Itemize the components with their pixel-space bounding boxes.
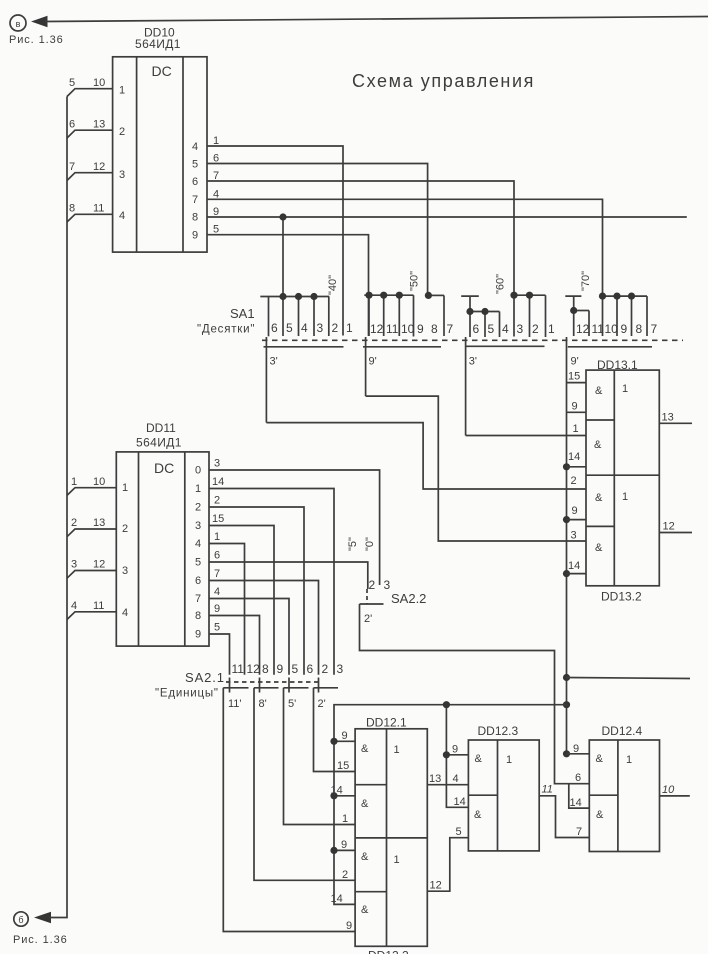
svg-text:3: 3 [214, 458, 220, 470]
DD13.1 pin 14 [567, 451, 587, 467]
svg-text:3: 3 [71, 559, 77, 571]
SA1 section 1 wiper 3' [264, 337, 344, 423]
svg-text:14: 14 [212, 476, 224, 488]
node В (off-page connector top-left) [10, 15, 26, 31]
svg-text:DD13.2: DD13.2 [601, 590, 642, 604]
svg-text:1: 1 [626, 754, 632, 766]
svg-text:5: 5 [488, 322, 495, 336]
DD12.3 output 11 to DD12.4 pin 7 [539, 784, 589, 838]
svg-text:7: 7 [214, 568, 220, 580]
DD11 input 3 (pins 3/12) [67, 559, 116, 579]
svg-text:4: 4 [71, 600, 77, 612]
svg-text:4: 4 [195, 538, 201, 550]
DD13.1 pin 9 [567, 401, 587, 413]
svg-text:&: & [595, 385, 603, 397]
DD12.3 pin labels [452, 743, 466, 808]
svg-text:10: 10 [401, 322, 415, 336]
svg-text:&: & [595, 542, 603, 554]
SA2.1 mechanical link (dashed) [226, 681, 320, 683]
svg-text:3: 3 [119, 169, 125, 181]
svg-text:11: 11 [592, 322, 605, 336]
svg-text:1: 1 [573, 423, 579, 435]
svg-text:3: 3 [384, 578, 391, 592]
svg-text:5: 5 [292, 662, 299, 676]
svg-text:9: 9 [572, 401, 578, 413]
svg-text:&: & [475, 753, 483, 765]
DD11 output 4 wire to SA2.1 contact 5 [209, 586, 289, 675]
svg-text:13: 13 [93, 517, 105, 529]
svg-text:7: 7 [447, 322, 454, 336]
svg-text:7: 7 [576, 826, 582, 838]
svg-text:12: 12 [93, 161, 105, 173]
svg-text:"50": "50" [409, 271, 421, 291]
svg-text:9: 9 [214, 603, 220, 615]
svg-text:&: & [596, 809, 604, 821]
svg-text:10: 10 [93, 77, 105, 89]
gate DD12.4 [589, 724, 659, 852]
svg-text:SA2.1: SA2.1 [185, 670, 225, 685]
DD11 input 4 (pins 4/11) [67, 600, 116, 620]
svg-text:11: 11 [93, 600, 104, 612]
svg-text:2: 2 [369, 578, 376, 592]
svg-text:"Десятки": "Десятки" [197, 324, 255, 336]
svg-text:8: 8 [636, 322, 643, 336]
wire: SA1.1 wiper to DD13.2 pin 2 [266, 423, 586, 489]
SA1 section 3 contacts (6..1) [461, 292, 555, 337]
svg-text:4: 4 [453, 773, 459, 785]
wire: node bus from SA1.4 wiper to DD12.1 left pins [330, 705, 566, 905]
wire: SA1.4 wiper branch to right edge [567, 678, 691, 679]
svg-text:9': 9' [369, 356, 377, 368]
DD11 output 15 wire to SA2.1 contact 9 [209, 513, 274, 675]
svg-text:DC: DC [154, 460, 174, 476]
svg-text:5': 5' [288, 698, 296, 710]
DD11 output 7 wire to SA2.1 contact 2 [209, 568, 319, 675]
svg-text:DD12.3: DD12.3 [478, 724, 519, 738]
svg-text:5: 5 [214, 622, 220, 634]
svg-text:564ИД1: 564ИД1 [135, 37, 181, 51]
svg-text:"0": "0" [364, 537, 376, 551]
svg-text:8: 8 [195, 610, 201, 622]
svg-text:2: 2 [119, 126, 125, 138]
svg-text:9: 9 [342, 730, 348, 742]
svg-text:564ИД1: 564ИД1 [136, 436, 182, 450]
svg-text:&: & [595, 492, 603, 504]
svg-text:1: 1 [506, 754, 512, 766]
switch SA2.1 "Единицы" labels [155, 670, 225, 700]
svg-text:7: 7 [195, 593, 201, 605]
svg-text:9: 9 [572, 505, 578, 517]
svg-text:&: & [361, 798, 369, 810]
svg-text:3: 3 [122, 565, 128, 577]
svg-text:13: 13 [662, 412, 674, 424]
SA1 mechanical link (dashed) [262, 339, 683, 341]
svg-text:1: 1 [119, 85, 125, 97]
svg-text:13: 13 [93, 119, 105, 131]
svg-text:DD11: DD11 [146, 421, 176, 435]
svg-text:6: 6 [271, 321, 278, 335]
svg-text:9: 9 [277, 662, 284, 676]
DD10 output 5 wire to SA1.2 contact 12 [207, 224, 369, 337]
switch SA2.2 [347, 537, 426, 625]
SA2.1 wiper 2' to DD12.1 pin 15 [314, 688, 356, 772]
svg-text:1: 1 [622, 383, 628, 395]
svg-text:8: 8 [69, 203, 75, 215]
svg-text:9: 9 [621, 322, 628, 336]
svg-text:&: & [361, 851, 369, 863]
svg-text:3: 3 [317, 321, 324, 335]
DD13.1 output 13 [659, 412, 692, 424]
svg-text:9': 9' [571, 356, 579, 368]
svg-text:9: 9 [346, 920, 352, 932]
svg-text:11': 11' [228, 698, 242, 710]
svg-text:1: 1 [394, 744, 400, 756]
svg-text:1: 1 [71, 476, 77, 488]
svg-text:12: 12 [247, 662, 261, 676]
DD13.2 output 12 [659, 521, 692, 533]
svg-text:SA2.2: SA2.2 [391, 591, 426, 606]
wire: DD12.4 pin 9 feed [567, 753, 590, 755]
wire: SA1.2 wiper to DD13.2 pin 3 [366, 396, 586, 541]
switch SA1 "Десятки" labels [197, 306, 255, 336]
SA2.1 contact labels [232, 662, 344, 676]
svg-text:6: 6 [214, 550, 220, 562]
DD11 output 5 wire to SA2.1 contact 11 [209, 622, 230, 675]
DD12.1 pin labels [331, 730, 353, 932]
svg-text:7: 7 [69, 161, 75, 173]
SA1 section 3 wiper 3' [466, 337, 545, 436]
svg-text:5: 5 [195, 557, 201, 569]
svg-text:4: 4 [192, 141, 198, 153]
svg-text:1: 1 [394, 854, 400, 866]
svg-text:1: 1 [342, 813, 348, 825]
svg-text:1: 1 [122, 482, 128, 494]
DD10 output 1 wire to SA1.1 contact 1 [207, 135, 343, 336]
svg-text:11: 11 [542, 784, 553, 796]
SA1 section 4 wiper 9' [568, 347, 652, 368]
DD11 input 2 (pins 2/13) [67, 517, 116, 537]
svg-text:"5": "5" [347, 537, 359, 551]
svg-text:4: 4 [502, 322, 509, 336]
wire: SA2.2 wiper 2' to DD12.4 pin 6 [360, 604, 590, 784]
svg-text:6: 6 [575, 772, 581, 784]
SA2.1 wiper 5' to DD12.1 pin 1 [284, 688, 356, 825]
svg-text:7: 7 [651, 322, 658, 336]
svg-text:1: 1 [622, 491, 628, 503]
svg-text:14: 14 [568, 560, 580, 572]
svg-text:&: & [596, 753, 604, 765]
svg-text:11: 11 [232, 662, 245, 676]
DD10 input 1 (pins 5/10) [67, 77, 113, 97]
svg-text:9: 9 [452, 743, 458, 755]
svg-text:14: 14 [331, 785, 343, 797]
svg-text:9: 9 [417, 322, 424, 336]
svg-text:11: 11 [93, 203, 104, 215]
DD10 output 7 wire to SA1.3 contact 3 [207, 170, 514, 337]
svg-text:SA1: SA1 [230, 306, 255, 321]
svg-text:15: 15 [568, 371, 580, 383]
svg-text:6: 6 [473, 322, 480, 336]
svg-text:15: 15 [212, 513, 224, 525]
svg-text:DD12.2: DD12.2 [368, 949, 409, 954]
svg-text:2: 2 [532, 322, 539, 336]
svg-text:12: 12 [576, 322, 590, 336]
DD11 output 9 wire to SA2.1 contact 8 [209, 603, 260, 675]
node Б (off-page connector bottom-left) [14, 912, 28, 926]
svg-text:2: 2 [322, 662, 329, 676]
svg-text:3': 3' [469, 356, 477, 368]
svg-text:3: 3 [517, 322, 524, 336]
svg-text:6: 6 [307, 662, 314, 676]
DD10 input 3 (pins 7/12) [67, 161, 113, 181]
svg-text:3: 3 [337, 662, 344, 676]
svg-text:9: 9 [341, 839, 347, 851]
svg-text:7: 7 [192, 194, 198, 206]
svg-text:DD12.1: DD12.1 [366, 716, 407, 730]
SA2.1 wiper 11' to DD12.1 pin 9 (bottom) [223, 688, 355, 932]
svg-text:12: 12 [430, 880, 442, 892]
svg-text:DC: DC [152, 63, 172, 79]
DD10 input 4 (pins 8/11) [67, 203, 113, 223]
svg-text:&: & [361, 904, 369, 916]
svg-text:1: 1 [346, 321, 353, 335]
DD12.4 pin labels [570, 743, 583, 838]
svg-text:13: 13 [429, 773, 441, 785]
svg-text:2: 2 [332, 321, 339, 335]
svg-text:DD12.4: DD12.4 [602, 724, 643, 738]
wire: left bus from node Б up to DD10/DD11 inputs [34, 97, 67, 924]
svg-text:9: 9 [213, 206, 219, 218]
svg-text:2: 2 [214, 495, 220, 507]
svg-text:Схема управления: Схема управления [352, 71, 535, 91]
DD12.1 output 13 to DD12.3 pin 4 [427, 773, 468, 785]
DD13.2 pin 9 [567, 505, 587, 520]
svg-text:14: 14 [568, 451, 580, 463]
wire: SA1.3 wiper to DD13.1 pin 1 [466, 435, 586, 437]
svg-text:5: 5 [456, 826, 462, 838]
svg-text:"Единицы": "Единицы" [155, 688, 219, 700]
svg-text:&: & [474, 809, 482, 821]
SA1 section 2 contacts (12..7) [364, 292, 453, 337]
svg-text:14: 14 [570, 797, 582, 809]
svg-text:2': 2' [318, 698, 326, 710]
svg-text:1: 1 [214, 531, 220, 543]
DD11 output 14 wire to SA2.1 contact 3 [209, 476, 334, 675]
svg-text:12: 12 [370, 322, 384, 336]
wire: top feed line with arrowhead to node В [31, 16, 708, 27]
svg-text:8: 8 [262, 662, 269, 676]
DD13.2 pin 14 [567, 560, 587, 574]
wire: branch to DD12.4 pin 14 [569, 784, 590, 808]
svg-text:15: 15 [337, 760, 349, 772]
svg-text:б: б [18, 915, 23, 925]
DD11 output 6 wire to SA2.2 contact 2 [209, 550, 368, 590]
svg-text:&: & [594, 439, 602, 451]
gate DD12.3 [468, 724, 539, 851]
gate block DD13.1 / DD13.2 [586, 358, 659, 604]
svg-text:5: 5 [69, 77, 75, 89]
svg-text:в: в [16, 19, 21, 29]
decoder DD11 564ИД1 [116, 421, 209, 646]
svg-text:"60": "60" [495, 274, 507, 294]
DD11 input 1 (pins 1/10) [67, 476, 116, 495]
svg-text:3': 3' [270, 356, 278, 368]
svg-text:9: 9 [192, 230, 198, 242]
svg-text:12: 12 [93, 559, 105, 571]
svg-text:1: 1 [548, 322, 555, 336]
svg-text:9: 9 [573, 743, 579, 755]
svg-text:&: & [361, 743, 369, 755]
svg-text:4: 4 [214, 586, 220, 598]
svg-text:10: 10 [93, 476, 105, 488]
DD11 output 3 wire to SA2.2 contact 3 [209, 458, 380, 586]
svg-text:2: 2 [571, 475, 577, 487]
svg-text:5: 5 [213, 224, 219, 236]
DD12.4 output 10 [660, 784, 690, 796]
DD10 output 6 wire to SA1.2 contact 8 [207, 153, 428, 296]
svg-text:"40": "40" [327, 275, 339, 295]
svg-text:8: 8 [192, 211, 198, 223]
svg-text:2: 2 [195, 502, 201, 514]
svg-text:5: 5 [286, 321, 293, 335]
svg-text:9: 9 [195, 629, 201, 641]
svg-text:"70": "70" [580, 271, 592, 291]
SA2.1 wiper 8' to DD12.1 pin 2 [254, 688, 355, 881]
SA2.1 wiper position ticks [230, 678, 319, 693]
SA1 section 4 contacts (12..7) [565, 293, 657, 337]
svg-text:3: 3 [571, 530, 577, 542]
DD11 output 1 wire to SA2.1 contact 12 [209, 531, 245, 675]
svg-text:14: 14 [454, 796, 466, 808]
svg-text:6: 6 [192, 176, 198, 188]
SA1 section 2 wiper 9' [363, 337, 441, 396]
svg-text:Рис. 1.36: Рис. 1.36 [13, 934, 68, 946]
svg-text:12: 12 [663, 521, 675, 533]
svg-text:5: 5 [192, 158, 198, 170]
gate block DD12.1 / DD12.2 [355, 716, 427, 954]
wire: SA1.4 wiper bus down to DD12.4 pin 9 [563, 337, 570, 757]
svg-text:6: 6 [195, 575, 201, 587]
DD12.1 output 12 to DD12.3 pin 5 [427, 826, 468, 892]
svg-text:8: 8 [431, 322, 438, 336]
svg-text:Рис. 1.36: Рис. 1.36 [9, 34, 64, 46]
svg-text:2': 2' [364, 613, 372, 625]
svg-text:10: 10 [662, 784, 675, 796]
wire: branch to DD12.3 pins 9/14 [443, 701, 469, 807]
svg-text:0: 0 [195, 465, 201, 477]
SA1 section 1 contacts (6..1) [260, 293, 353, 336]
svg-text:2: 2 [122, 523, 128, 535]
svg-text:11: 11 [386, 322, 399, 336]
DD10 input 2 (pins 6/13) [67, 119, 113, 139]
DD13.1 pin 15 [567, 371, 587, 383]
svg-text:1: 1 [195, 483, 201, 495]
svg-text:2: 2 [342, 869, 348, 881]
decoder DD10 564ИД1 [113, 26, 207, 253]
svg-text:8': 8' [259, 698, 267, 710]
svg-text:4: 4 [301, 321, 308, 335]
DD11 output 2 wire to SA2.1 contact 6 [209, 495, 304, 675]
svg-text:3: 3 [195, 520, 201, 532]
svg-text:14: 14 [331, 893, 343, 905]
svg-text:4: 4 [122, 607, 128, 619]
svg-text:2: 2 [71, 517, 77, 529]
DD10 output 9 wire (to SA1.1 contact 5 and off right) [207, 206, 687, 336]
svg-text:4: 4 [119, 210, 125, 222]
svg-text:6: 6 [69, 119, 75, 131]
svg-text:10: 10 [605, 322, 619, 336]
DD10 output 4 wire to SA1.4 contact 10 [207, 188, 603, 336]
